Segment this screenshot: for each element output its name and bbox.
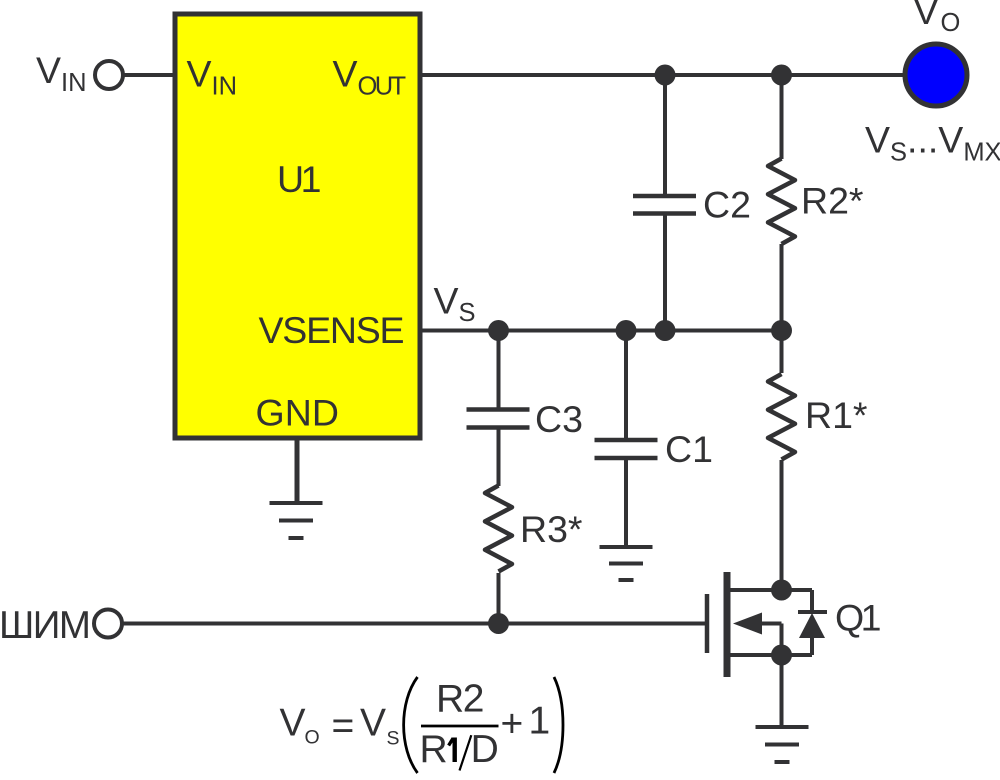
capacitor C1 [595,438,658,443]
transistor Q1 source stub [727,653,812,657]
svg-text:D: D [471,728,499,771]
svg-text:C2: C2 [703,184,751,226]
svg-text:O: O [305,727,320,749]
ground (U1 GND) [270,503,323,538]
resistor R1 [768,374,795,460]
wire: VIN terminal to U1 [123,73,176,77]
wire: VSENSE down to C1 [624,331,628,441]
node: junction dot top rail / R2 [771,65,792,86]
ground (Q1 source) [756,727,809,762]
formula fraction bar [421,725,499,728]
node: junction dot VSENSE/C2 [655,320,676,341]
IC U1 body [175,14,420,438]
svg-text:R2: R2 [436,678,485,721]
terminal VIN circle [95,61,123,89]
svg-text:C3: C3 [535,398,583,440]
svg-text:U1: U1 [277,158,322,200]
svg-text:V: V [360,702,386,745]
svg-text:1: 1 [529,700,551,743]
formula V_O = V_S (R2/(R1/D) + 1) [280,678,551,772]
svg-text:ШИМ: ШИМ [0,604,91,647]
svg-text:R1*: R1* [805,394,868,436]
wire: VOUT top rail [420,73,906,77]
svg-text:VSENSE: VSENSE [259,309,405,351]
wire: top rail down to R2 [780,75,784,159]
node: junction dot VSENSE/C1 [616,320,637,341]
transistor Q1 body arrow [733,613,762,635]
diode (Q1 body) triangle [799,613,825,638]
resistor R3 [485,486,512,572]
svg-text:=: = [332,705,355,748]
node: junction dot PWM/R3 [488,613,509,634]
wire: top rail down to C2 [663,75,667,196]
svg-text:Q1: Q1 [835,597,882,639]
svg-text:C1: C1 [665,428,713,470]
wire: source to ground [780,655,784,727]
wire: R1 branch [780,331,784,374]
svg-text:R: R [420,728,448,771]
node: junction dot Q1 drain [771,580,792,601]
formula close parenthesis [554,677,563,773]
svg-text:S: S [387,728,400,750]
formula open parenthesis [404,677,418,773]
diode (Q1 body) cathode bar [798,610,827,614]
wire: VSENSE down to C3 [497,331,501,410]
svg-text:GND: GND [256,392,340,434]
node: junction dot Q1 source [771,645,792,666]
wire: VSENSE rail [420,329,782,333]
terminal VO (blue) [905,44,967,106]
transistor Q1 drain stub [727,588,812,592]
ground (C1) [600,547,653,580]
node: junction dot VSENSE/C3 [488,320,509,341]
capacitor C3 [467,407,530,412]
svg-text:V: V [280,702,306,745]
transistor Q1 channel bar [724,572,731,677]
node: junction dot VSENSE/R2/R1 [771,320,792,341]
transistor Q1 gate bar [705,594,710,653]
wire: PWM rail [122,622,705,626]
svg-text:+: + [501,703,524,746]
svg-text:R2*: R2* [801,180,864,222]
capacitor C2 [633,194,696,199]
terminal PWM circle [94,610,122,638]
wire: U1 GND pin [295,438,300,503]
svg-text:R3*: R3* [520,508,583,550]
resistor R2 [768,159,795,245]
node: junction dot top rail / C2 [655,65,676,86]
